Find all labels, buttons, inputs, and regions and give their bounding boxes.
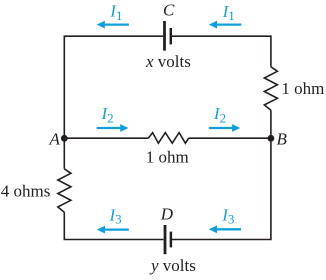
- svg-text:I3: I3: [221, 206, 234, 227]
- svg-text:I2: I2: [101, 104, 114, 125]
- battery C negative plate (short): [170, 28, 173, 44]
- svg-text:I3: I3: [109, 206, 122, 227]
- svg-text:1 ohm: 1 ohm: [281, 79, 324, 98]
- wire: middle segment from node A to middle resistor: [64, 137, 148, 139]
- current arrow I1 (top right, pointing left): [209, 21, 242, 29]
- svg-text:B: B: [277, 129, 288, 148]
- battery D negative plate (short): [170, 232, 173, 248]
- wire: middle segment from middle resistor to node B: [189, 137, 271, 139]
- svg-text:I1: I1: [222, 2, 235, 23]
- current arrow I3 (bottom right, pointing left): [209, 225, 241, 233]
- current arrow I3 (bottom left, pointing left): [97, 226, 129, 234]
- current arrow I2 (middle left, pointing right): [97, 124, 129, 132]
- wire: from 4-ohm resistor through bottom-left corner to battery D: [64, 212, 163, 239]
- battery D positive plate (long): [164, 225, 167, 254]
- resistor 1 ohm (middle zigzag): [149, 133, 189, 144]
- wire: from right 1-ohm resistor through top-right corner to battery C: [172, 36, 271, 67]
- svg-text:C: C: [163, 1, 175, 20]
- svg-text:D: D: [160, 205, 174, 224]
- resistor 1 ohm (right branch zigzag): [264, 67, 277, 110]
- svg-text:y volts: y volts: [149, 256, 196, 275]
- current arrow I2 (middle right, pointing right): [209, 124, 241, 132]
- wire: from battery D through bottom-right corner up through node B to 1-ohm resistor: [172, 110, 271, 239]
- node A junction dot: [61, 135, 68, 142]
- node B junction dot: [268, 135, 275, 142]
- svg-text:I2: I2: [213, 104, 226, 125]
- battery C positive plate (long): [163, 21, 166, 51]
- svg-text:I1: I1: [109, 2, 122, 23]
- resistor 4 ohms (left branch zigzag): [58, 169, 71, 212]
- svg-text:1 ohm: 1 ohm: [146, 148, 189, 167]
- svg-text:x volts: x volts: [145, 52, 191, 71]
- current arrow I1 (top left, pointing left): [97, 21, 129, 29]
- wire: from battery C left through top-left corner down through node A to 4-ohm resistor: [64, 36, 163, 169]
- svg-text:A: A: [49, 130, 61, 149]
- svg-text:4 ohms: 4 ohms: [1, 181, 51, 200]
